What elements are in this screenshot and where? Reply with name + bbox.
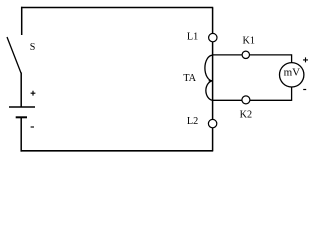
- meter polarity +: [303, 57, 308, 62]
- meter polarity -: [303, 89, 306, 91]
- svg-text:L2: L2: [187, 116, 198, 127]
- wire: left vertical upper (to switch): [21, 7, 23, 35]
- terminal L2: [208, 119, 216, 127]
- wire: K2 horizontal (coil bottom to meter): [213, 99, 292, 101]
- svg-text:K1: K1: [243, 36, 255, 47]
- svg-text:TA: TA: [183, 73, 196, 84]
- svg-text:L1: L1: [187, 31, 198, 42]
- wire: meter top stub: [291, 54, 293, 63]
- wire: left vertical mid (switch to battery): [20, 73, 22, 108]
- terminal K2: [242, 96, 250, 104]
- battery label +: [31, 91, 36, 96]
- winding TA mid-junction tick: [209, 80, 213, 82]
- terminal L1: [209, 33, 217, 41]
- battery label -: [31, 126, 34, 128]
- wire: K1 horizontal (coil top to meter): [213, 54, 292, 56]
- millivoltmeter PV body: [280, 63, 304, 87]
- svg-text:S: S: [30, 42, 36, 53]
- battery GB negative plate (short): [16, 116, 27, 118]
- winding TA arc 2: [206, 81, 213, 101]
- wire: bottom horizontal: [21, 150, 214, 152]
- wire: right vertical (primary circuit): [212, 8, 214, 151]
- battery GB positive plate (long): [9, 106, 35, 108]
- svg-text:mV: mV: [284, 66, 301, 78]
- terminal K1: [242, 51, 249, 58]
- wire: left vertical lower (battery to bottom): [20, 117, 22, 151]
- wire: meter bottom stub: [291, 87, 293, 101]
- wire: top horizontal: [21, 7, 213, 9]
- switch S blade: [7, 37, 21, 73]
- winding TA arc 1: [205, 55, 213, 81]
- svg-text:K2: K2: [240, 109, 252, 120]
